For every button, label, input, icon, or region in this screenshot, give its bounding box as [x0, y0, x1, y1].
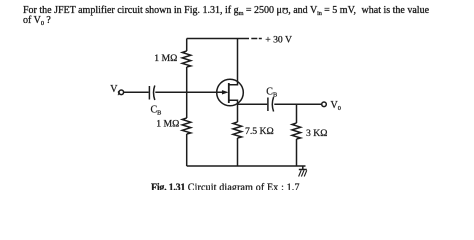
svg-text:CB: CB [266, 87, 277, 99]
svg-text:Fig. 1.31 Circuit diagram of: Fig. 1.31 Circuit diagram of Ex : 1.7 [151, 183, 300, 191]
svg-text:CB: CB [151, 104, 162, 116]
svg-text:Vi: Vi [110, 84, 119, 97]
svg-text:V0: V0 [331, 100, 341, 112]
svg-text:+ 30 V: + 30 V [265, 35, 292, 46]
svg-text:3 KΩ: 3 KΩ [306, 128, 327, 139]
svg-text:7.5 KΩ: 7.5 KΩ [245, 126, 274, 137]
svg-text:1 MΩ: 1 MΩ [156, 118, 179, 129]
svg-text:1 MΩ: 1 MΩ [154, 53, 177, 64]
